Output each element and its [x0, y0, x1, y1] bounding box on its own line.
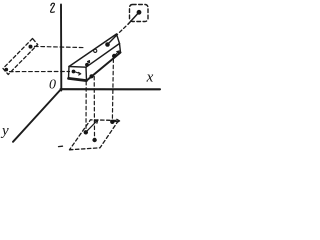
box: front face left edge A-D — [68, 67, 71, 79]
top-right xz-projection dashed rectangle — [130, 5, 149, 22]
dot inside xz rectangle (moment vector tip) — [137, 10, 142, 15]
label z (hand-script) — [51, 3, 55, 12]
bottom projection force arrow 1 — [87, 120, 98, 131]
lower horizontal dashed connector — [10, 71, 70, 73]
upper horizontal dashed connector — [35, 46, 86, 47]
bottom projection dot 3 — [110, 120, 114, 124]
bottom projection force arrow 3 — [114, 119, 119, 122]
y-axis — [13, 91, 60, 142]
x-axis — [61, 88, 161, 90]
svg-text:0: 0 — [49, 77, 56, 92]
box: long bottom edge C-G (thick) — [87, 53, 121, 81]
bottom projection dot 2 — [92, 138, 96, 142]
box: front face bottom edge D-C (thick) — [69, 78, 87, 80]
bottom projection dot 1 — [84, 130, 88, 134]
force dot on front face — [72, 70, 76, 74]
box: far end top edge E-F — [117, 34, 120, 44]
vertical dashed connector down to bottom dot 2 — [93, 77, 95, 138]
dot on right side face — [112, 54, 116, 58]
moment vector line: solid part from box top dot — [108, 34, 118, 44]
svg-text:y: y — [0, 123, 9, 139]
vertical dashed connector from box right edge down to bottom dot 1 — [85, 82, 87, 130]
force arrow on front face — [75, 72, 80, 75]
dot on top face (moment origin) — [105, 42, 110, 47]
vertical dashed connector down to bottom dot 3 — [112, 59, 113, 119]
small arrow from right side dot — [115, 51, 119, 55]
z-axis — [60, 5, 62, 91]
svg-text:x: x — [146, 70, 154, 86]
box: front face right edge B-C — [85, 67, 88, 80]
stray lead-in dash left of parallelogram corner — [59, 145, 63, 147]
box: far end right edge F-G — [120, 44, 121, 53]
left projection lower dot — [5, 68, 9, 72]
small open circle mark on top face — [94, 49, 97, 52]
moment vector line: solid part into rectangle dot — [128, 12, 139, 24]
left projection upper dot — [29, 45, 33, 49]
left yz-projection dashed parallelogram — [3, 39, 38, 75]
bottom xy-projection dashed parallelogram — [70, 120, 119, 150]
box: long top-left edge A-E — [69, 34, 117, 67]
moment vector line: dashed middle part — [120, 25, 128, 33]
box: long top-right edge B-F — [86, 44, 120, 68]
small arrow up-right from edge dot — [87, 61, 89, 64]
dot on bottom long edge — [89, 74, 93, 78]
dot on long top-right edge near B — [85, 63, 89, 67]
box: front face top edge A-B — [69, 66, 86, 69]
